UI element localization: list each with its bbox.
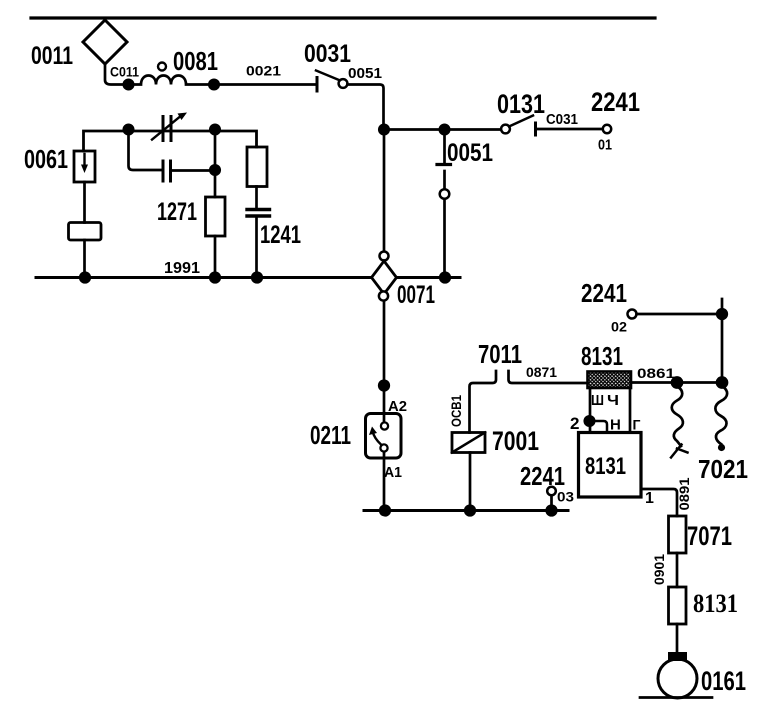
junction node rail2 A1 xyxy=(380,506,390,516)
svg-text:01: 01 xyxy=(598,137,612,154)
contact 0051 upper wire xyxy=(443,130,446,164)
svg-text:0211: 0211 xyxy=(310,420,351,450)
junction node xyxy=(440,125,449,134)
wire stub above 02 node xyxy=(721,299,724,383)
svg-text:Ч: Ч xyxy=(607,392,619,409)
ground line under lamp xyxy=(640,696,712,699)
variable capacitor plates xyxy=(163,117,171,141)
junction node winding 1 xyxy=(672,378,682,388)
switch 0131 blade xyxy=(509,116,533,127)
wire 0901 xyxy=(676,553,679,587)
svg-text:0161: 0161 xyxy=(701,666,746,696)
junction node xyxy=(379,125,388,134)
junction node on rail xyxy=(252,273,262,283)
wire 0071 down to relay contact xyxy=(383,301,386,414)
relay contact 0211 box xyxy=(366,414,402,459)
svg-text:8131: 8131 xyxy=(693,589,738,618)
variable capacitor arrowhead xyxy=(178,113,188,121)
contact 0051 moving contact circle xyxy=(440,189,450,199)
svg-text:0031: 0031 xyxy=(304,40,351,68)
junction node rail2 7001 xyxy=(465,506,475,516)
jack 0071 diamond xyxy=(372,261,397,294)
wire C031 xyxy=(536,128,603,131)
svg-text:02: 02 xyxy=(611,319,627,335)
junction node winding 2 xyxy=(717,378,727,388)
wire between windings xyxy=(677,381,722,384)
junction node on rail xyxy=(210,273,220,283)
wire 1241 to rail xyxy=(255,217,258,278)
unit 8131 right side wire xyxy=(629,388,632,433)
top bus wire xyxy=(31,16,655,19)
wire into 0211 box xyxy=(383,414,386,423)
inductor 0081 xyxy=(129,76,215,85)
variable capacitor arrow xyxy=(152,115,182,140)
winding 2 end blob xyxy=(718,444,725,451)
contact 0211 blade arrowhead xyxy=(369,427,377,436)
svg-text:C011: C011 xyxy=(110,65,139,80)
element box below 0061 xyxy=(69,223,102,241)
junction node above A2 xyxy=(379,381,389,391)
svg-text:1: 1 xyxy=(645,490,654,507)
svg-text:7071: 7071 xyxy=(687,521,732,551)
svg-text:1271: 1271 xyxy=(157,198,197,226)
lamp 0161 bulb xyxy=(658,659,697,698)
switch 0131 moving contact circle xyxy=(501,125,510,134)
junction node right tank xyxy=(210,125,219,134)
svg-text:Г: Г xyxy=(633,417,641,433)
svg-text:2241: 2241 xyxy=(520,461,565,491)
switch 0031 fixed contact bar xyxy=(316,78,319,92)
wire antenna to node C011 xyxy=(105,64,128,85)
terminal circle 2241/01 xyxy=(603,125,611,133)
ground rail 1991 left part xyxy=(36,276,372,279)
contact 0211 upper terminal circle xyxy=(381,422,388,429)
wire to switch 0131 xyxy=(445,128,502,131)
winding 1 fork end xyxy=(671,445,688,458)
svg-text:0861: 0861 xyxy=(637,365,675,381)
junction node left tank xyxy=(124,125,133,134)
svg-text:0871: 0871 xyxy=(526,365,557,380)
svg-text:03: 03 xyxy=(557,490,575,505)
jack 0071 lower circle xyxy=(379,291,388,300)
coil 7021 winding 1 xyxy=(672,386,683,446)
coil 7021 winding 2 xyxy=(715,386,727,444)
svg-text:7001: 7001 xyxy=(492,426,539,456)
antenna diamond 0011 xyxy=(83,20,127,64)
wire 0051 to rail xyxy=(443,199,446,278)
svg-text:0891: 0891 xyxy=(677,477,692,511)
arrester 0061 arrow xyxy=(83,154,85,166)
svg-text:0011: 0011 xyxy=(31,42,73,70)
wire node to jack 0071 xyxy=(383,130,386,252)
wire 02 to winding xyxy=(637,313,723,316)
pin 2 node xyxy=(585,416,594,425)
arrester 0061 box xyxy=(74,151,95,182)
wire out of 0211 box xyxy=(383,452,386,459)
contact 0211 blade xyxy=(373,431,382,445)
svg-text:0051: 0051 xyxy=(348,66,382,82)
svg-text:2: 2 xyxy=(570,414,579,433)
contact 0051 fixed bar xyxy=(437,163,451,166)
wire 0861 xyxy=(631,381,677,384)
wire between nodes xyxy=(384,128,444,131)
junction node on rail xyxy=(80,273,90,283)
svg-text:8131: 8131 xyxy=(585,453,626,480)
resistor 8131 xyxy=(669,587,687,624)
unit 8131 hatched connector xyxy=(588,372,632,389)
tank top rail xyxy=(84,131,257,151)
wire capacitor to node xyxy=(171,169,215,172)
pin H hook wire xyxy=(592,421,607,432)
svg-text:8131: 8131 xyxy=(581,341,623,371)
resistor of 1241 branch xyxy=(247,147,267,187)
svg-text:0051: 0051 xyxy=(447,139,493,167)
wire from 0031 down to node xyxy=(348,85,384,130)
wire OCB1 coil to connector 7011 xyxy=(470,371,497,433)
junction node 02 xyxy=(717,309,727,319)
svg-text:0071: 0071 xyxy=(397,281,435,309)
switch 0131 fixed contact bar xyxy=(534,123,537,135)
pin 1 wire 0891 xyxy=(641,489,677,516)
svg-text:Ш: Ш xyxy=(591,392,604,409)
svg-text:A1: A1 xyxy=(384,464,402,481)
wire to fixed capacitor xyxy=(129,130,163,171)
svg-text:0081: 0081 xyxy=(173,46,218,76)
ground rail 1991 right part xyxy=(396,276,460,279)
wire resistor to capacitor 1241 xyxy=(255,187,258,208)
resistor 1271 xyxy=(206,197,226,236)
svg-text:1241: 1241 xyxy=(260,221,301,249)
unit 8131 main box xyxy=(579,433,642,498)
svg-text:ОСВ1: ОСВ1 xyxy=(448,395,464,427)
svg-text:1991: 1991 xyxy=(164,260,200,277)
resistor 7071 xyxy=(669,516,687,553)
svg-text:0061: 0061 xyxy=(24,144,68,174)
wire to ground rail xyxy=(83,240,86,278)
switch 0031 blade xyxy=(316,71,339,81)
contact 0211 lower terminal circle xyxy=(380,444,387,451)
wire 0061 to box xyxy=(83,182,86,223)
contact 0051 lower wire xyxy=(443,171,446,189)
capacitor 1241 plates xyxy=(247,210,270,217)
relay coil 7001 diagonal xyxy=(452,433,485,453)
unit 8131 left side wire xyxy=(589,388,592,433)
svg-text:0901: 0901 xyxy=(652,554,667,585)
terminal circle 2241/02 xyxy=(628,310,637,319)
terminal circle 2241/03 xyxy=(547,487,556,496)
junction node right of inductor xyxy=(209,80,218,89)
svg-text:0131: 0131 xyxy=(497,89,545,119)
wire down to resistor 1271 xyxy=(214,130,217,198)
relay coil 7001 box xyxy=(452,433,485,453)
switch 0031 moving contact circle xyxy=(339,79,348,88)
junction node rail2 03 xyxy=(547,506,557,516)
svg-text:C031: C031 xyxy=(546,112,578,128)
svg-text:2241: 2241 xyxy=(581,278,627,308)
connector 7011 right pin xyxy=(509,371,589,383)
svg-text:7011: 7011 xyxy=(478,339,522,369)
svg-text:2241: 2241 xyxy=(591,87,640,117)
wire to lamp xyxy=(676,624,679,654)
wire 1271 to rail xyxy=(214,236,217,278)
arrester 0061 arrowhead xyxy=(81,165,88,174)
svg-text:7021: 7021 xyxy=(698,454,748,484)
rail 2 xyxy=(364,509,568,512)
junction node xyxy=(210,165,219,174)
lamp 0161 base cap xyxy=(668,652,687,661)
fixed capacitor plates xyxy=(163,161,171,181)
wire 0021 xyxy=(214,83,316,86)
svg-text:Н: Н xyxy=(610,417,621,434)
junction node on rail xyxy=(440,273,450,283)
junction node C011 xyxy=(124,80,133,89)
svg-text:A2: A2 xyxy=(388,398,407,415)
jack 0071 upper circle xyxy=(380,252,389,261)
svg-text:0021: 0021 xyxy=(246,64,282,79)
wire 03 to rail2 xyxy=(550,496,553,511)
wire rail2 to relay coil 7001 xyxy=(469,453,472,511)
wire A1 to rail 2 xyxy=(383,458,386,511)
terminal circle of 0081 xyxy=(158,63,166,71)
